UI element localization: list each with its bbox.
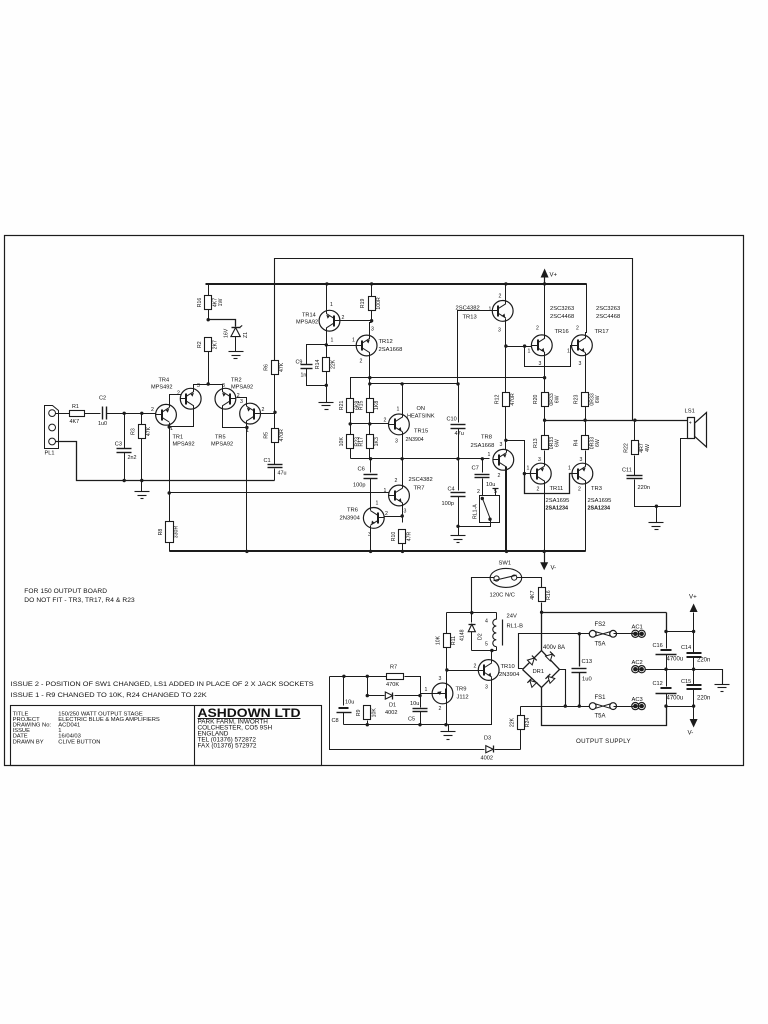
top connector row [667,631,694,633]
wire TR1 emitter down to R8 node [169,423,171,493]
svg-text:R14: R14 [315,360,321,370]
svg-text:R23: R23 [574,395,580,405]
svg-text:D3: D3 [484,736,491,742]
wire R1 to C2 [85,413,101,415]
resistor R23 0R33 6W [582,393,589,407]
wire SW1 right to R18 [517,578,542,589]
V+ arrow [541,269,549,278]
svg-text:4W: 4W [645,444,651,452]
svg-text:2: 2 [536,326,539,332]
svg-text:TR3: TR3 [591,486,602,492]
svg-text:R20: R20 [533,395,539,405]
drawing border frame [5,236,744,766]
wire D1 node to TR9 gate [421,693,433,695]
svg-text:470K: 470K [386,682,399,688]
svg-text:1: 1 [331,338,334,344]
svg-text:TR7: TR7 [414,486,425,492]
svg-text:C8: C8 [332,718,339,724]
svg-text:TR9: TR9 [456,687,467,693]
svg-text:5: 5 [485,642,488,648]
wire PL1 pin1 to R1 [56,413,70,415]
svg-text:2: 2 [360,359,363,365]
svg-text:AC2: AC2 [632,660,643,666]
wire TR12 emitter down to R15 node [369,353,371,399]
svg-text:C2: C2 [99,395,106,401]
svg-text:ON: ON [417,406,425,412]
connector AC1 [632,630,639,637]
wire TR13 base to bias rail [458,311,493,384]
svg-text:TR2: TR2 [231,378,242,384]
svg-text:2: 2 [477,489,480,495]
svg-text:V+: V+ [550,273,558,279]
supply V+ column C16 [666,613,668,632]
resistor R24 22K [520,730,522,750]
svg-text:LS1: LS1 [685,409,695,415]
svg-text:C9: C9 [296,360,303,366]
transistor TR14 MPSA92 [319,310,340,331]
svg-text:3: 3 [439,676,442,682]
wire to TR17 base lower path [525,346,572,367]
V- arrow below rail [544,552,546,563]
svg-text:MPSA92: MPSA92 [173,442,195,448]
svg-text:R3: R3 [130,428,136,435]
wire TR6 emitter to V- rail [370,526,372,552]
svg-text:47K: 47K [146,426,152,436]
svg-text:2SA1695: 2SA1695 [588,498,612,504]
capacitor C1 47u [268,464,283,466]
svg-text:3: 3 [371,327,374,333]
svg-text:R22: R22 [624,443,630,453]
svg-text:4700u: 4700u [667,657,684,663]
svg-text:10K: 10K [372,708,378,718]
wire TR16 emitter to R20 node [544,353,546,393]
AC2 row [632,666,639,673]
wire TR16 collector to V+ arrow column [544,284,546,337]
svg-text:100R: 100R [376,297,382,310]
svg-text:V-: V- [551,566,557,572]
diode D2 4148 [471,613,473,623]
wire bridge plus to V+ row [542,612,667,614]
wire SW1 left to relay row [472,578,495,613]
svg-text:R5: R5 [264,432,270,439]
svg-text:2: 2 [439,706,442,712]
svg-text:470R: 470R [510,393,516,406]
bottom connector row [667,706,694,708]
wire TR17 emitter to R23b node [585,353,587,393]
thermal switch SW1 120C N/C [490,568,522,587]
svg-text:2SA1668: 2SA1668 [379,347,403,353]
svg-text:6W: 6W [555,439,561,447]
svg-text:R1: R1 [72,404,79,410]
transistor TR4 MPS492 [180,388,201,409]
svg-text:AC1: AC1 [632,625,643,631]
svg-text:4K7: 4K7 [70,419,80,425]
svg-text:R11: R11 [451,636,457,645]
wire C2 to input node and TR1 base [107,413,156,415]
svg-text:2SC4382: 2SC4382 [409,477,433,483]
input ground bus wire [56,442,275,481]
bias rail upper [351,378,545,399]
svg-text:4K7: 4K7 [530,590,536,599]
wire TR5 collector to TR2 base [237,398,247,407]
svg-text:R9: R9 [356,709,362,716]
svg-text:10K: 10K [436,635,442,645]
ground below R3 [141,481,143,492]
capacitor C4 100p [451,492,466,494]
svg-text:R21: R21 [339,401,345,411]
wire TR9 source to ground rail [446,704,448,725]
wire TR6 base to TR7 emitter node [385,516,403,518]
svg-text:3: 3 [240,399,243,405]
fuse FS2 T5A [589,630,596,637]
svg-text:47K: 47K [279,362,285,372]
diode D3 4002 [486,746,493,753]
wire TR11 emitter to V- rail [544,481,546,552]
wire LS1 bottom terminal [681,439,689,507]
svg-text:6W: 6W [555,395,561,403]
svg-text:2SC3263: 2SC3263 [596,306,620,312]
transistor TR16 2SC3263/2SC4468 [531,335,552,356]
svg-text:TR15: TR15 [414,429,428,435]
svg-text:1: 1 [352,338,355,344]
svg-text:1K8: 1K8 [374,401,380,410]
capacitor C8 10u [343,677,345,706]
wire TR15 collector to bias rail [402,384,404,416]
wire TR9 drain node to TR10 base [447,670,479,672]
resistor R8 330R [169,493,171,522]
resistor R13 0R33 6W [544,421,546,437]
wire bridge AC right to FS1 row [560,670,566,707]
svg-text:DRAWN BY: DRAWN BY [13,739,44,745]
transistor TR13 2SC4382 [492,301,513,322]
svg-text:3: 3 [404,509,407,515]
svg-text:24V: 24V [507,614,517,620]
resistor R16 4K7 1W [208,285,210,296]
resistor R9 10K [367,677,369,696]
capacitor C10 47u [458,384,460,423]
transistor TR1 MPSA92 [156,404,177,425]
svg-text:100p: 100p [442,501,454,507]
resistor R10 47R [399,530,406,544]
svg-text:2: 2 [537,487,540,493]
svg-text:MPS492: MPS492 [151,385,172,391]
svg-text:C14: C14 [681,645,691,651]
svg-text:4002: 4002 [385,710,397,716]
svg-text:C16: C16 [653,643,663,649]
wire TR5 base to R5 node [261,413,275,415]
resistor R17 1K3 [369,424,371,435]
svg-text:TR11: TR11 [550,486,564,492]
svg-text:PL1: PL1 [45,451,55,457]
svg-text:10K: 10K [339,437,345,447]
bias rail of TR9 area [330,676,387,678]
svg-text:3: 3 [579,361,582,367]
svg-text:2: 2 [384,418,387,424]
resistor R18 4K7 [539,588,546,602]
svg-text:2n2: 2n2 [128,455,137,461]
svg-text:MPSA92: MPSA92 [296,320,318,326]
svg-text:OUTPUT SUPPLY: OUTPUT SUPPLY [576,738,631,745]
wire TR7 emitter to R10 [402,503,404,523]
svg-text:C11: C11 [622,468,632,474]
resistor R2 2K7 [205,338,212,352]
diode D1 4002 [368,695,385,697]
transistor TR15 2N3904 on heatsink [389,414,410,435]
svg-text:RL1-B: RL1-B [507,624,524,630]
transistor TR6 2N3904 [363,508,384,529]
svg-text:1: 1 [527,466,530,472]
svg-text:TR14: TR14 [302,313,316,319]
svg-text:330R: 330R [173,526,179,539]
wire TR4 TR2 collectors to R2 node [194,385,223,392]
transistor TR9 J112 jfet [432,683,453,704]
svg-text:2N3904: 2N3904 [406,437,424,443]
svg-text:R6: R6 [264,364,270,371]
capacitor C2 1u0 [102,407,104,420]
svg-text:2: 2 [262,407,265,413]
ground below R14 [319,402,334,404]
wire TR14 emitter to R14 [326,331,328,358]
svg-text:1: 1 [330,302,333,308]
wire R12 to TR8 collector, branch to output bases [506,441,525,474]
resistor R14 22K [323,358,330,372]
svg-text:ACD041: ACD041 [58,723,80,729]
svg-text:2: 2 [498,473,501,479]
svg-text:220n: 220n [697,696,710,702]
svg-text:R12: R12 [495,395,501,405]
bridge rectifier DR1 400V 8A [541,613,543,651]
resistor R3 47K [141,414,143,425]
svg-text:C10: C10 [447,417,457,423]
svg-text:47u: 47u [278,471,287,477]
svg-text:TR5: TR5 [215,435,226,441]
svg-text:1: 1 [376,501,379,507]
resistor R21 6K8 [347,399,354,413]
svg-text:RL1-A: RL1-A [473,504,479,519]
svg-text:1: 1 [568,466,571,472]
capacitor C9 1n [307,345,327,365]
svg-text:16V: 16V [224,328,230,338]
svg-text:10u: 10u [410,701,419,707]
bias rail lower [370,383,459,385]
svg-text:R4: R4 [574,440,580,447]
relay coil row bottom to TR10 collector [472,650,497,652]
wire bases of TR11 TR3 [525,473,531,475]
svg-text:47u: 47u [455,431,464,437]
svg-text:R13: R13 [533,438,539,448]
svg-text:2: 2 [576,326,579,332]
wire TR10 emitter to ground rail [449,678,492,725]
svg-text:3: 3 [395,439,398,445]
ground below C4 [451,535,466,537]
svg-text:C6: C6 [358,467,365,473]
resistor R6 47K [272,361,279,375]
title block box [11,706,322,766]
svg-text:400v 8A: 400v 8A [543,645,565,651]
wire TR3 emitter to V- rail [585,481,587,552]
zener Z1 16V [209,320,236,327]
resistor R4 0R33 6W [585,421,587,437]
transistor TR3 2SA1695 [572,463,593,484]
transistor TR12 2SA1668 [356,335,377,356]
svg-text:4700u: 4700u [667,696,684,702]
svg-text:J112: J112 [457,695,469,701]
resistor R15 1K8 [367,399,374,413]
svg-text:TR8: TR8 [481,435,492,441]
feedback wire from output to R6 [275,259,633,421]
svg-text:3: 3 [580,457,583,463]
svg-text:1: 1 [489,307,492,313]
svg-text:+: + [689,421,692,427]
svg-text:3: 3 [538,457,541,463]
svg-text:120C N/C: 120C N/C [490,593,515,599]
svg-text:4002: 4002 [481,756,493,762]
svg-text:D1: D1 [389,703,396,709]
svg-text:10u: 10u [486,482,495,488]
wire C8 rail to D3 [330,677,485,750]
svg-text:C1: C1 [264,458,271,464]
svg-text:47R: 47R [406,531,412,541]
capacitor C5 10u [413,708,428,710]
svg-text:2: 2 [177,391,180,397]
svg-text:HEATSINK: HEATSINK [407,414,435,420]
wire TR10 collector to coil row [491,651,493,660]
resistor R19 100R [371,284,373,297]
svg-text:C3: C3 [115,441,122,447]
svg-text:220n: 220n [638,485,650,491]
svg-text:2SA1695: 2SA1695 [546,498,570,504]
transistor TR17 2SC3263/2SC4468 [572,335,593,356]
resistor R1 4K7 [70,411,85,417]
svg-text:1: 1 [384,488,387,494]
svg-text:TR13: TR13 [463,315,477,321]
transistor TR2 MPSA92 [215,388,236,409]
TR7 base rail from input stage [170,492,389,494]
svg-text:ISSUE 1 - R9 CHANGED TO 10K, R: ISSUE 1 - R9 CHANGED TO 10K, R24 CHANGED… [11,692,208,699]
svg-text:2: 2 [578,487,581,493]
transistor TR10 2N3904 [478,660,499,681]
svg-text:2: 2 [395,478,398,484]
wire TR14 base to R19 node [340,320,372,322]
wire TR13 emitter to R12 [505,319,507,393]
svg-text:R17: R17 [358,437,364,447]
svg-text:1K3: 1K3 [374,437,380,446]
svg-text:2N3904: 2N3904 [499,672,520,678]
resistor R20 0R33 6W [542,393,549,407]
wire TR4 emitter join TR1 emitter [170,406,194,427]
capacitor C13 1u0 [579,634,581,667]
svg-text:FOR 150 OUTPUT BOARD: FOR 150 OUTPUT BOARD [24,588,107,595]
svg-text:220n: 220n [697,658,710,664]
capacitor C15 220n [693,670,695,686]
svg-text:C5: C5 [408,717,415,723]
ground rail of TR9 area [344,724,492,726]
svg-text:2SC4468: 2SC4468 [550,314,574,320]
svg-text:TR17: TR17 [595,329,609,335]
svg-text:Z1: Z1 [243,332,249,338]
V- bottom rail [170,550,586,552]
svg-text:C13: C13 [582,659,593,665]
wire TR14 collector to V+ rail [326,284,328,311]
capacitor C16 4700u [661,649,672,651]
wire V+ rail end to TR17 collector [586,284,587,337]
svg-text:2SC4468: 2SC4468 [596,314,620,320]
svg-text:2K7: 2K7 [212,340,218,349]
svg-text:R24: R24 [525,718,531,728]
capacitor C3 2n2 [124,414,126,449]
svg-text:R16: R16 [197,298,203,308]
svg-text:FS1: FS1 [595,695,607,701]
svg-text:R10: R10 [391,532,397,542]
connector PL1 [45,406,59,449]
wire TR2 emitter join TR5 emitter [223,406,247,428]
svg-text:10u: 10u [345,700,354,706]
svg-text:1: 1 [488,452,491,458]
wire TR13 emitter node to TR16 base [506,346,532,348]
resistor R5 470R [274,413,276,429]
wire bridge minus to V- row [542,688,667,726]
ground for AC2 0V [715,684,730,686]
wire TR13 collector to V+ rail [505,284,507,302]
svg-text:R16: R16 [546,590,552,600]
resistor R7 470K [380,676,387,678]
resistor R23 10K [350,424,352,435]
capacitor C12 4700u [666,670,668,687]
svg-text:TR6: TR6 [347,508,358,514]
svg-text:22K: 22K [331,359,337,369]
svg-text:AC3: AC3 [632,697,643,703]
svg-text:6W: 6W [595,439,601,447]
ground below Z1 [229,351,244,353]
svg-text:4148: 4148 [460,629,466,641]
fuse FS1 T5A row [521,706,593,708]
TR8 base rail [351,458,490,460]
svg-text:FAX (01376) 572972: FAX (01376) 572972 [198,742,257,749]
relay coil RL1-B 24V [496,613,498,620]
ground below C11 [656,507,658,523]
capacitor C7 10u [482,459,484,473]
svg-text:1u0: 1u0 [582,677,592,683]
svg-text:TR4: TR4 [159,378,170,384]
svg-text:2SA1234: 2SA1234 [546,506,568,512]
wire bias node to TR15 base [351,423,389,425]
svg-text:1: 1 [397,407,400,413]
svg-text:6W: 6W [595,395,601,403]
svg-text:2SA1234: 2SA1234 [588,506,610,512]
capacitor C11 220n [627,475,643,477]
svg-text:1n: 1n [301,373,307,379]
svg-text:3: 3 [498,328,501,334]
relay coil row top [447,612,497,614]
svg-text:R2: R2 [197,341,203,348]
wire TR12 base to TR14 emitter node [327,345,357,347]
svg-text:470R: 470R [279,429,285,442]
svg-text:100p: 100p [353,483,365,489]
svg-text:1: 1 [528,349,531,355]
wire R13 to TR11 collector [544,464,546,465]
svg-text:C15: C15 [681,679,691,685]
ground below TR9 rail [448,725,450,732]
transistor TR8 2SA1668 driver [493,449,514,470]
capacitor C14 220n [693,632,695,653]
resistor R12 470R [503,393,510,407]
svg-text:22K: 22K [509,717,515,727]
svg-text:T5A: T5A [595,714,606,720]
wire TR1 collector to TR4 base [170,395,181,408]
svg-text:ISSUE 2 - POSITION OF SW1 CHAN: ISSUE 2 - POSITION OF SW1 CHANGED, LS1 A… [11,681,315,688]
svg-text:1: 1 [567,349,570,355]
resistor R11 10K [446,613,448,634]
